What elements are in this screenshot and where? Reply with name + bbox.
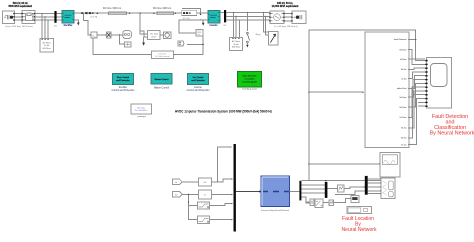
inverter block (208, 11, 220, 28)
svg-text:Vb Rect: Vb Rect (399, 106, 407, 109)
svg-text:5000 MVA equivalent: 5000 MVA equivalent (8, 5, 32, 8)
source2 block (292, 11, 306, 23)
svg-text:Vb Inv: Vb Inv (401, 138, 407, 140)
node port ticks source2 (269, 13, 292, 22)
svg-text:Master Control: Master Control (155, 78, 169, 81)
svg-text:timer: timer (151, 35, 156, 38)
svg-text:Vc Inv: Vc Inv (401, 144, 407, 146)
small block Bc (329, 200, 334, 206)
sample block R4 (197, 216, 209, 224)
AC filters 60 Hz block (40, 39, 54, 53)
wire Bb to Bc (323, 202, 329, 204)
relay block M3 (123, 31, 132, 39)
svg-text:By Neural Network: By Neural Network (430, 130, 474, 136)
node junction (203, 44, 204, 45)
function fitting neural network block (blue) (261, 176, 290, 212)
wire from inverter DC return down to M5 (179, 20, 208, 33)
wire branch down to M4 (120, 35, 125, 45)
svg-text:Fault Distance: Fault Distance (394, 38, 408, 41)
wire bundle top line to mux3 and NN2 (309, 180, 388, 182)
wire routed feed to fault-detection (top long wire) (301, 30, 425, 181)
svg-text:Vd: Vd (175, 194, 177, 196)
node junctions (188, 194, 189, 203)
logic block M6 (OR gate) (178, 41, 184, 46)
mux1 bar (234, 144, 236, 232)
small block Bb (switch) (315, 199, 323, 208)
svg-text:Control and Protection: Control and Protection (112, 89, 136, 92)
svg-text:DC line 300 km: DC line 300 km (103, 6, 122, 10)
svg-text:Id: Id (175, 182, 177, 184)
svg-text:Va Inv: Va Inv (401, 128, 407, 130)
svg-text:AC filters: AC filters (43, 42, 51, 45)
master control block (151, 74, 172, 90)
svg-text:Id Inv: Id Inv (402, 78, 407, 80)
wire R-block outputs into mux1 (209, 179, 232, 220)
wire fan from selector outputs to NN ports (408, 40, 425, 145)
svg-text:(A-g): (A-g) (256, 33, 261, 36)
wire between source2 blocks (284, 14, 292, 21)
svg-text:Inverter: Inverter (194, 86, 202, 89)
sample block R2 (199, 190, 212, 199)
svg-text:600 Mvar: 600 Mvar (232, 47, 241, 49)
wire demux fanout to second bar (301, 185, 324, 203)
svg-text:recorded signals: recorded signals (242, 82, 257, 84)
bus B2 measurement bar (224, 10, 227, 27)
svg-text:and Protection: and Protection (116, 79, 130, 82)
wire three-phase inverter AC side (220, 12, 270, 20)
sample block R1 (199, 178, 212, 186)
svg-text:DC fault control: DC fault control (155, 55, 170, 58)
scope block SC1 (380, 152, 400, 177)
wire reactor bypass hook to inverter (182, 9, 201, 15)
demux bar (299, 181, 301, 201)
node junction dots on phase wires (42, 13, 49, 21)
svg-text:(0.5 H): (0.5 H) (90, 16, 97, 18)
svg-text:Vd Inv: Vd Inv (401, 69, 407, 71)
svg-text:to visualize: to visualize (245, 78, 256, 81)
svg-text:(Leq = 26.4 deg. 745 kVrms): (Leq = 26.4 deg. 745 kVrms) (5, 25, 33, 28)
node DC line mid junction (97, 13, 141, 14)
wire tap from Id line up to mux1 top (218, 147, 232, 182)
svg-text:Inverter: Inverter (209, 24, 217, 27)
svg-text:Vc Rect: Vc Rect (399, 116, 406, 119)
gain block M2 (106, 32, 111, 38)
label fault location (red) (341, 216, 377, 233)
wire drops to AC filters 60 Hz (42, 14, 48, 39)
svg-text:Open this block: Open this block (243, 75, 257, 78)
wire M5 output down (202, 36, 204, 44)
svg-text:AC filters: AC filters (232, 40, 240, 43)
wire Bc to display S4 (334, 198, 351, 203)
svg-text:DC fault: DC fault (150, 32, 158, 35)
svg-text:Neural Network: Neural Network (341, 227, 377, 233)
node dots on DC line (97, 13, 176, 14)
node junction at inverter input (200, 14, 201, 21)
display S5 (wide) (347, 207, 372, 214)
svg-text:Discrete: Discrete (158, 52, 166, 55)
wire M6 output towards mux feed (173, 44, 203, 55)
node junctions phase wires right (233, 12, 266, 21)
wire M2 to relay M3 (111, 34, 123, 35)
source2 impedance block (270, 11, 284, 23)
wire DC mid tap down to DC fault block (140, 13, 147, 42)
wire extra input to mux3 (335, 191, 365, 195)
ground under inverter (202, 20, 208, 26)
block M5 (timer note) (196, 30, 203, 37)
from tag 2 (172, 192, 182, 198)
rectifier block (62, 11, 74, 28)
svg-text:and Protection: and Protection (191, 79, 205, 82)
svg-text:Discrete,: Discrete, (137, 106, 146, 109)
breaker symbol (246, 12, 249, 47)
wire chain from M1 down to M7 (93, 38, 151, 54)
small block LIN (327, 185, 365, 192)
bar M2 (intermediate mux) (325, 182, 328, 198)
wire M1 to gain M2 (97, 34, 106, 35)
controller block M7 (151, 51, 173, 59)
small block Ba (310, 199, 314, 205)
svg-text:600 Mvar: 600 Mvar (43, 48, 52, 50)
fault detection NN block (425, 58, 451, 109)
svg-text:alpha Rect: alpha Rect (397, 87, 407, 90)
svg-text:Master Control: Master Control (154, 87, 170, 90)
svg-text:Control and Protection: Control and Protection (187, 89, 211, 92)
svg-text:DC line 300 km: DC line 300 km (153, 6, 172, 10)
wire mux3 to NN2 (368, 179, 381, 194)
sample block R3 (197, 202, 209, 209)
from tag 1 (172, 179, 182, 185)
wire mux1 output to NN (blue) block (236, 190, 262, 192)
mux3 bar (365, 176, 368, 195)
node branch junction (119, 34, 120, 35)
svg-text:Data Acquisition: Data Acquisition (242, 88, 258, 91)
svg-text:HVDC 12-pulse Transmission Sys: HVDC 12-pulse Transmission System 1000 M… (175, 109, 272, 113)
signal selector subsystem (tall) (365, 32, 409, 147)
svg-text:60 Hz: 60 Hz (44, 45, 49, 47)
measurement block M1 (90, 32, 97, 38)
svg-text:50 Hz: 50 Hz (233, 44, 238, 46)
DC line section 1 block (109, 12, 127, 15)
svg-text:Vd Rect: Vd Rect (399, 48, 407, 51)
node port ticks source/transformer (13, 13, 35, 21)
NN2 block (381, 178, 395, 198)
DC fault block (148, 31, 161, 40)
svg-text:Rect. Control: Rect. Control (117, 76, 130, 79)
wire three-phase source to transformer (15, 14, 23, 21)
inverter control and protection block (187, 74, 211, 93)
wire drops to AC filters 50 Hz (234, 12, 240, 37)
label AC system 1 title (8, 2, 32, 8)
scope circle block (160, 32, 171, 39)
svg-text:Va Rect: Va Rect (400, 96, 407, 99)
svg-text:Rectifier: Rectifier (119, 86, 128, 89)
wire DC tap staircase down to M1 (83, 13, 91, 35)
three-phase fault block (269, 32, 278, 45)
svg-text:(L = 80 deg. 238 kVrms): (L = 80 deg. 238 kVrms) (274, 25, 298, 28)
wire into SC1 from riser (309, 163, 380, 164)
smoothing reactor 2 (182, 10, 197, 20)
AC filters 50 Hz block (230, 37, 243, 50)
svg-text:Function Fitting Neural Networ: Function Fitting Neural Network (261, 209, 289, 212)
svg-text:Inv. Control: Inv. Control (193, 76, 204, 79)
ground under DC fault feed (142, 43, 145, 46)
label AC system 2 title (272, 2, 299, 8)
display S4 (351, 196, 359, 203)
ground under rectifier output (74, 20, 80, 26)
svg-text:Rectifier: Rectifier (64, 24, 73, 27)
source Z1 (equivalent impedance block) (3, 11, 15, 24)
svg-text:powergui: powergui (138, 116, 147, 118)
data acquisition block (green) (237, 71, 261, 90)
smoothing reactor 1 (inline marks) (81, 12, 97, 18)
wire routed feed 2 (input of signal subsystem) (309, 92, 364, 93)
node junction on riser (rect input tap) (308, 39, 416, 164)
powergui block (131, 104, 152, 118)
block M4 (delay) (125, 42, 132, 47)
svg-text:Id Rect: Id Rect (400, 58, 407, 61)
label fault detection (red) (430, 114, 474, 137)
wire DC line pole from rectifier to inverter (74, 12, 208, 14)
svg-text:10,000 MVA equivalent: 10,000 MVA equivalent (272, 5, 299, 8)
bus B1 measurement bar (54, 11, 57, 28)
rectifier control and protection block (112, 74, 136, 93)
wire tags to sample blocks (182, 182, 199, 220)
wire transformer to rectifier via bus B1 (35, 14, 62, 21)
DC line section 2 block (157, 12, 174, 15)
wire blue block to demux (290, 191, 300, 193)
svg-text:Ts = 5e-005 s.: Ts = 5e-005 s. (135, 110, 149, 112)
wire drops to three-phase fault (263, 12, 268, 35)
transformer block (source impedance) (22, 11, 35, 24)
